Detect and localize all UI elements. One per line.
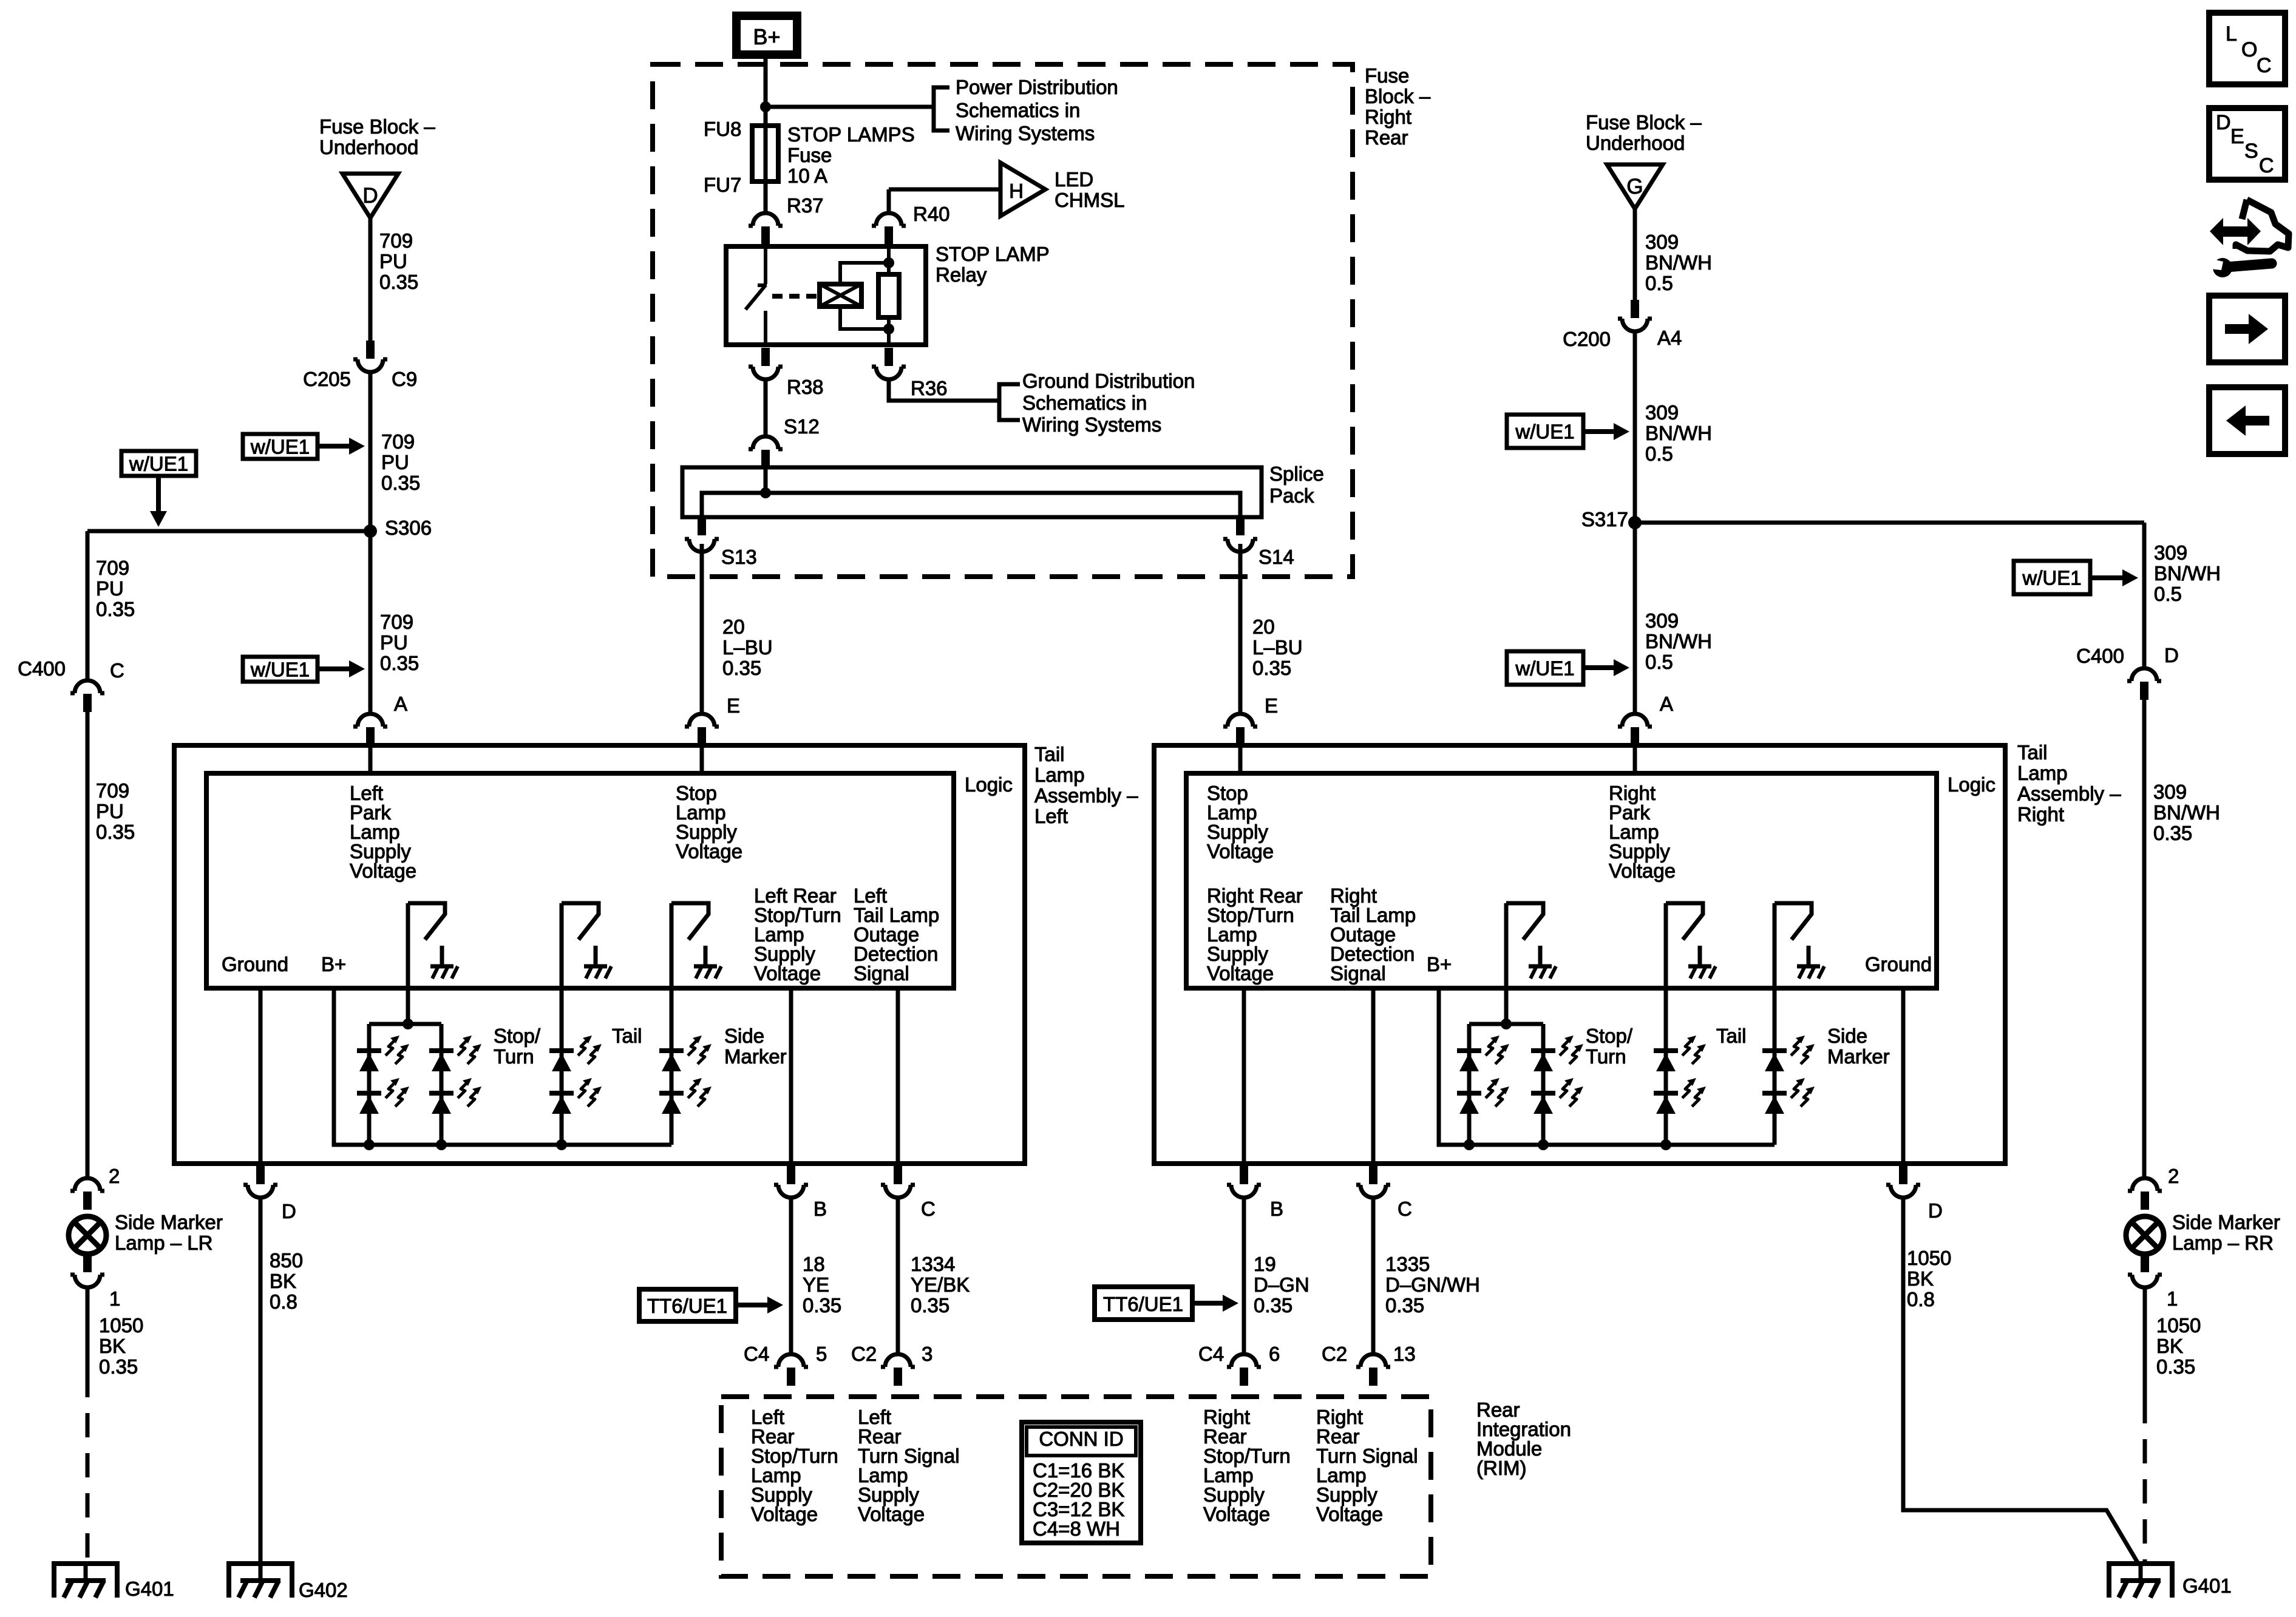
connector E (right) [1223,714,1257,727]
splice pack box [682,467,1262,517]
svg-text:G402: G402 [299,1579,348,1601]
svg-text:R37: R37 [787,194,824,217]
wire C200 to S317 [1633,331,1637,523]
svg-text:A4: A4 [1657,327,1682,349]
relay coil [820,284,861,307]
switch stop/turn (right) [1506,903,1543,940]
diode stop/turn 2b (left) [429,1091,453,1096]
wire ground to D (right) [1901,988,1906,1178]
svg-text:A: A [394,693,407,715]
LED arrows side marker a (right) [1791,1039,1801,1056]
connector E (left) [685,714,719,727]
switch side marker (right) [1775,903,1812,940]
LED arrows side marker a (left) [688,1039,698,1056]
svg-text:D: D [1928,1199,1943,1222]
arrow w/UE1 to A wire right [1583,665,1616,670]
connector C2 pin 3 [881,1354,915,1367]
power distribution bracket [934,87,949,131]
tail lamp assembly right outer box [1154,745,2005,1164]
diode side marker b (left) [659,1091,684,1096]
wire B+ box to junction [764,55,768,107]
fuse block right rear dashed box [653,64,1353,577]
wire stop/turn col2 (right) [1541,1024,1546,1145]
diode stop/turn 2a (right) [1531,1048,1555,1053]
svg-text:TT6/UE1: TT6/UE1 [1103,1293,1183,1315]
wire S13 down to E (left) [700,544,704,714]
svg-text:Tail: Tail [612,1025,642,1047]
svg-text:G: G [1626,175,1643,198]
svg-text:w/UE1: w/UE1 [1515,657,1574,680]
w/UE1 box (A wire) [243,657,318,682]
icon vehicle outline [2236,200,2289,251]
connector B (right) [1227,1185,1261,1198]
svg-text:C9: C9 [392,368,417,390]
wire B+ rail (right) [1439,988,1775,1145]
wire lamp LR to ground (solid) [86,1287,90,1373]
diode side marker b (right) [1762,1091,1787,1096]
LED CHMSL triangle H [1000,163,1045,216]
wire S12 into splice pack [764,468,768,493]
fuse FU8/FU7 STOP LAMPS 10A [752,126,778,181]
splice pin S13 [698,517,706,535]
diode tail a (left) [549,1048,574,1053]
ground G402 [226,1564,294,1598]
icon LOC box [2209,13,2285,84]
fuse block triangle G [1607,164,1663,209]
svg-text:Side MarkerLamp – RR: Side MarkerLamp – RR [2172,1211,2280,1254]
connector S14 [1223,539,1257,552]
LED arrows tail a (right) [1682,1039,1693,1056]
svg-text:w/UE1: w/UE1 [2022,567,2081,589]
node stop/turn feed (left) [402,1019,413,1029]
icon wrench [2213,258,2232,277]
LED arrows 2a (right) [1560,1039,1570,1056]
connector lamp LR pin 1 [70,1275,104,1287]
svg-text:R40: R40 [913,203,950,225]
switch side marker (left) [671,903,708,940]
svg-text:w/UE1: w/UE1 [250,659,310,681]
wire left branch down to C400 [86,531,90,680]
svg-text:D: D [2164,644,2179,666]
lamp RR bottom pin [2141,1254,2149,1272]
svg-text:B+: B+ [1427,953,1452,975]
battery feed B+ box [736,16,797,55]
svg-text:S: S [2244,140,2258,163]
svg-text:TT6/UE1: TT6/UE1 [647,1295,727,1317]
wire D triangle to C205 [369,218,373,342]
switch tail (left) [562,903,599,940]
wire E pin to logic (right) [1238,745,1243,773]
svg-text:H: H [1009,180,1024,202]
connector A (right) [1618,714,1652,727]
LED arrows side marker b (left) [688,1082,698,1098]
wire lamp RR to ground (dashed) [2143,1399,2147,1564]
diode stop/turn 1a (right) [1457,1048,1481,1053]
svg-text:O: O [2241,38,2257,61]
svg-text:C4: C4 [744,1343,769,1365]
connector A (left) [353,714,387,727]
node col1 bottom (left) [364,1139,375,1150]
TT6/UE1 box (left) [639,1289,736,1321]
svg-text:R38: R38 [787,376,824,398]
lamp LR bottom pin [83,1254,92,1272]
lamp Side Marker LR [69,1216,106,1254]
relay resistor [878,274,899,317]
wire B+ rail (left) [334,988,671,1145]
LED arrows 2b (left) [458,1082,468,1098]
connector C4 pin 5 [774,1354,808,1367]
svg-text:C1=16 BKC2=20 BKC3=12 BKC4=8 W: C1=16 BKC2=20 BKC3=12 BKC4=8 WH [1033,1459,1124,1540]
wire A pin to logic (right) [1633,745,1637,773]
w/UE1 box (A wire right) [1507,651,1583,685]
connector S13 [685,539,719,552]
svg-text:13: 13 [1393,1343,1416,1365]
svg-text:D: D [282,1200,296,1222]
svg-text:C200: C200 [1563,328,1611,350]
LED arrows 1a (left) [385,1039,396,1056]
connector lamp LR pin 2 [70,1178,104,1191]
fuse block triangle D [342,174,398,218]
arrow TT6/UE1 to wire (left) [736,1303,770,1307]
LED arrows 2b (right) [1560,1082,1570,1098]
svg-text:S13: S13 [721,546,757,568]
arrow w/UE1 to wire [318,444,352,449]
svg-text:E: E [2230,125,2244,148]
w/UE1 box (right edge) [2014,561,2090,594]
svg-text:C205: C205 [303,368,351,390]
connector R38 [749,367,783,379]
svg-text:S14: S14 [1258,546,1294,568]
ground distribution bracket [999,384,1020,420]
svg-text:CONN ID: CONN ID [1039,1428,1123,1450]
node S306 [364,524,377,538]
diode stop/turn 2a (left) [429,1048,453,1053]
wire C400 to lamp LR [86,712,90,1178]
svg-text:C: C [921,1198,936,1220]
wire R36 to ground distribution bracket [889,379,999,401]
wire C to RIM (left) [896,1198,900,1355]
icon vehicle double arrow [2210,218,2261,245]
arrow w/UE1 to C200 wire [1583,429,1616,434]
connector C200/A4 [1618,319,1652,331]
wire D to ground (right) [1903,1198,2138,1562]
wire junction to power distribution bracket [766,105,934,109]
wire C to RIM (right) [1371,1198,1376,1355]
splice pin S14 [1236,517,1245,535]
svg-text:D: D [362,184,378,208]
connector lamp RR pin 1 [2128,1275,2162,1287]
LED arrows tail b (left) [578,1082,588,1098]
LED arrows side marker b (right) [1791,1082,1801,1098]
wire S306 branch left [87,529,370,534]
wire S317 to connector A (right) [1633,523,1637,714]
wire R40 to relay [887,189,891,214]
node power junction [760,101,771,112]
svg-text:3: 3 [922,1343,932,1365]
diode stop/turn 1a (left) [357,1048,381,1053]
connector D (left) [243,1185,277,1198]
LED arrows tail a (left) [578,1039,588,1056]
svg-text:C: C [2259,154,2274,177]
svg-text:B: B [813,1198,827,1220]
relay switch [746,246,767,345]
lamp Side Marker RR [2126,1216,2164,1254]
connector C (left) [881,1185,915,1198]
icon DESC box [2209,108,2285,180]
wire S14 down to E (right) [1238,544,1243,714]
connector R37 [749,213,783,226]
svg-text:G401: G401 [125,1578,174,1600]
svg-text:Ground: Ground [222,953,288,975]
logic box (left) [206,773,954,988]
connector R40 [872,213,906,226]
node relay coil bottom [883,324,894,334]
node relay coil top [883,257,894,268]
svg-text:Ground: Ground [1865,953,1932,975]
svg-text:E: E [727,694,740,717]
TT6/UE1 box (right) [1095,1287,1192,1320]
wire C205 to S306 [369,372,373,531]
svg-text:B+: B+ [753,24,780,49]
node col2 bottom (left) [436,1139,447,1150]
diode stop/turn 1b (right) [1457,1091,1481,1096]
connector S12 [749,436,783,449]
LED arrows 2a (left) [458,1039,468,1056]
stop/turn top bus (left) [369,1022,441,1026]
svg-text:S317: S317 [1581,508,1628,531]
svg-text:Fuse Block –Underhood: Fuse Block –Underhood [319,115,435,158]
stop/turn top bus (right) [1469,1022,1543,1026]
wire tail column (left) [560,903,564,1145]
icon right arrow box [2209,296,2285,362]
arrow w/UE1 to right edge wire [2090,575,2125,580]
tail lamp assembly left outer box [174,745,1025,1164]
wire ground to D (left) [259,988,263,1178]
wire lamp RR to ground (solid) [2143,1287,2147,1399]
LED arrows 1a (right) [1486,1039,1496,1056]
node col2 bottom (right) [1538,1139,1549,1150]
wire fuse to R37 [764,179,768,214]
wire G triangle to C200 [1633,209,1637,301]
diode side marker a (left) [659,1048,684,1053]
w/UE1 box (to S306 wire) [243,434,318,459]
connector B (left) [774,1185,808,1198]
svg-text:Side MarkerLamp – LR: Side MarkerLamp – LR [115,1211,223,1254]
wire stop/turn col1 (left) [367,1024,372,1145]
wire C out (left) [896,988,900,1178]
CONN ID table [1022,1422,1141,1543]
node stop/turn feed (right) [1501,1019,1512,1029]
svg-text:C400: C400 [2076,645,2124,667]
wire B out (left) [789,988,793,1178]
stop lamp relay box [726,246,926,345]
svg-text:1: 1 [109,1287,120,1310]
connector C (right) [1356,1185,1390,1198]
arrow w/UE1 down [156,476,161,514]
svg-text:Logic: Logic [1948,773,1995,796]
svg-text:E: E [1265,694,1278,717]
svg-text:6: 6 [1269,1343,1280,1365]
svg-text:A: A [1660,693,1673,715]
svg-text:G401: G401 [2182,1575,2232,1597]
svg-text:C: C [2257,54,2272,77]
wire junction to fuse [764,107,768,128]
wire right edge down to C400 D [2142,523,2147,668]
connector C2 pin 13 [1356,1354,1390,1367]
wire S317 branch right [1635,521,2144,525]
svg-text:Fuse Block –Underhood: Fuse Block –Underhood [1586,111,1702,154]
wire C out (right) [1371,988,1376,1178]
svg-text:Logic: Logic [965,773,1013,796]
svg-text:C: C [1398,1198,1412,1220]
LED arrows tail b (right) [1682,1082,1693,1098]
connector C400/C [70,680,104,693]
svg-text:2: 2 [2168,1165,2179,1187]
wire side marker column (left) [670,903,674,1145]
node S317 [1628,516,1642,529]
connector C4 pin 6 [1227,1354,1261,1367]
svg-text:C2: C2 [1322,1343,1347,1365]
wire B to RIM (right) [1242,1198,1246,1355]
wire B to RIM (left) [789,1198,793,1355]
svg-text:S306: S306 [385,517,432,539]
wire relay to LED CHMSL [889,188,1002,192]
wire lamp LR to ground (dashed) [86,1373,90,1564]
wire stop/turn col2 (left) [440,1024,444,1145]
arrow w/UE1 to A wire [318,666,352,671]
wire B out (right) [1242,988,1246,1178]
wire A pin to logic (left) [369,745,373,773]
wire stop/turn feed (left) [406,903,410,1024]
diode stop/turn 2b (right) [1531,1091,1555,1096]
wire tail column (right) [1664,903,1668,1145]
svg-text:w/UE1: w/UE1 [250,436,310,458]
logic box (right) [1186,773,1937,988]
svg-text:L: L [2226,22,2237,46]
connector lamp RR pin 2 [2128,1178,2162,1191]
connector C400/D [2127,668,2161,681]
node tail bottom (left) [556,1139,567,1150]
wire S306 to connector A (left) [369,531,373,714]
wire D to G402 (left) [259,1198,263,1564]
icon left arrow box [2209,387,2285,454]
diode side marker a (right) [1762,1048,1787,1053]
svg-text:C4: C4 [1198,1343,1224,1365]
svg-text:5: 5 [816,1343,827,1365]
node col1 bottom (right) [1464,1139,1475,1150]
svg-text:B: B [1270,1198,1283,1220]
w/UE1 box (left branch) [121,451,196,476]
diode tail b (left) [549,1091,574,1096]
svg-text:1: 1 [2167,1287,2178,1310]
wire C400 D to lamp RR [2142,700,2147,1178]
LED arrows 1b (right) [1486,1082,1496,1098]
diode tail a (right) [1654,1048,1678,1053]
diode stop/turn 1b (left) [357,1091,381,1096]
connector C205/C9 [353,359,387,372]
arrow TT6/UE1 to wire (right) [1192,1301,1225,1306]
svg-text:C2: C2 [851,1343,877,1365]
splice pack bus bar [702,493,1240,517]
switch stop/turn (left) [408,903,445,940]
node S12 splice [760,487,771,498]
wire R38 to S12 [764,379,768,436]
wire stop/turn col1 (right) [1467,1024,1472,1145]
svg-text:FU7: FU7 [704,174,741,196]
svg-text:w/UE1: w/UE1 [129,453,188,475]
svg-text:R36: R36 [911,377,948,399]
svg-text:2: 2 [109,1165,120,1187]
wire side marker column (right) [1773,903,1777,1145]
switch tail (right) [1666,903,1703,940]
connector R36 [872,367,906,379]
svg-text:C: C [110,659,124,682]
w/UE1 box (C200 wire) [1507,415,1583,448]
svg-text:FU8: FU8 [704,118,741,140]
relay actuator dashed link [772,294,817,299]
node tail bottom (right) [1660,1139,1671,1150]
svg-text:C400: C400 [18,657,66,680]
relay coil wiring [840,263,889,329]
svg-text:Stop/Turn: Stop/Turn [1586,1025,1633,1068]
svg-text:S12: S12 [784,415,820,438]
wire E pin to logic (left) [700,745,704,773]
diode tail b (right) [1654,1091,1678,1096]
svg-text:D: D [2216,111,2231,134]
svg-text:B+: B+ [321,953,346,975]
ground G401 (right) [2107,1564,2175,1598]
wire stop/turn feed (right) [1504,903,1509,1024]
rear integration module dashed box [721,1397,1431,1576]
svg-text:Stop/Turn: Stop/Turn [494,1025,541,1068]
connector D (right) [1886,1185,1920,1198]
svg-text:w/UE1: w/UE1 [1515,421,1574,443]
LED arrows 1b (left) [385,1082,396,1098]
svg-text:Tail: Tail [1716,1025,1747,1047]
ground G401 (left) [52,1564,120,1598]
